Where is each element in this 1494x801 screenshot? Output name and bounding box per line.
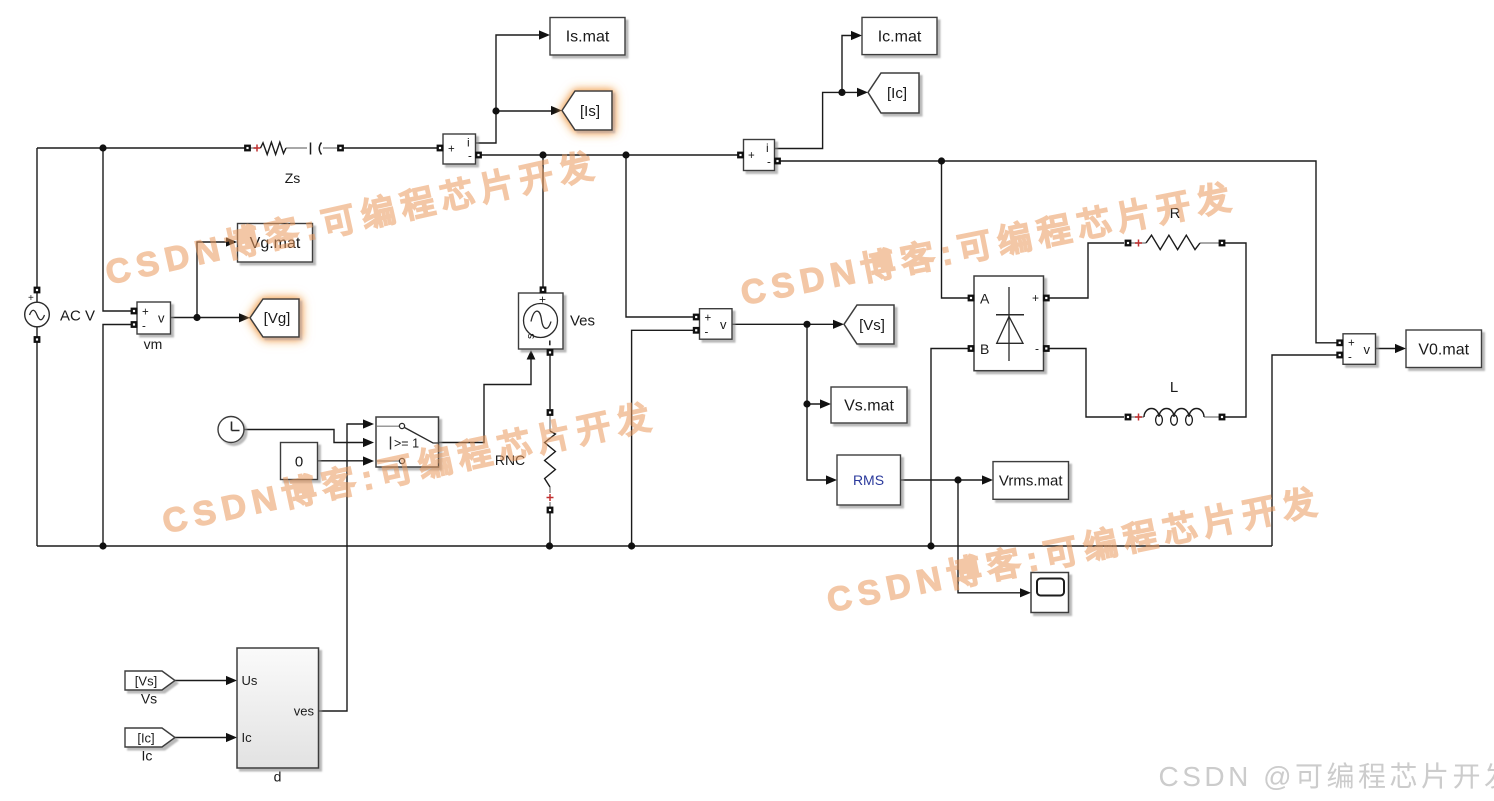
constant block 0 [281, 443, 318, 480]
arrow into scope [1020, 588, 1031, 597]
wire: branch down to RMS [807, 404, 826, 480]
series RLC branch Zs [244, 142, 344, 186]
node: Vs meter tap [622, 151, 629, 158]
svg-text:s: s [525, 333, 537, 339]
node: bus RNC tap [546, 542, 553, 549]
arrow into Vs goto [833, 320, 844, 329]
svg-text:-: - [468, 151, 472, 163]
wire: main AC line I1 to I2 [479, 154, 738, 156]
svg-text:Us: Us [242, 673, 258, 688]
AC voltage source AC V [25, 287, 95, 343]
wire: branch down to bridge A [942, 161, 970, 298]
svg-text:RMS: RMS [853, 472, 884, 488]
node: Ic tap [838, 89, 845, 96]
Goto tag [Vs] [844, 305, 894, 344]
arrow into switch in1 [363, 419, 374, 428]
wire: bridge plus to R [1049, 243, 1124, 298]
controlled voltage source Ves [519, 286, 596, 355]
svg-text:Is.mat: Is.mat [566, 29, 610, 46]
node: bus vm tap [99, 542, 106, 549]
node: Vg tap [193, 314, 200, 321]
svg-text:Ic: Ic [242, 730, 253, 745]
node: Vs.mat tap [803, 400, 810, 407]
node: bus bridge B tap [927, 542, 934, 549]
svg-text:+: + [28, 293, 34, 304]
svg-text:V0.mat: V0.mat [1418, 342, 1469, 359]
wire: Vs from tag to subsystem [175, 680, 226, 682]
svg-text:Ic.mat: Ic.mat [878, 29, 922, 46]
svg-text:+: + [1032, 291, 1039, 305]
arrow into Vg goto [239, 313, 250, 322]
svg-text:AC V: AC V [60, 308, 95, 325]
wire: main line right of I2 [777, 161, 1339, 343]
wire: branch down to Vs.mat [807, 324, 820, 404]
To File block Is.mat [550, 18, 625, 56]
ARROWHEADS [226, 30, 1406, 742]
svg-text:L: L [1170, 379, 1178, 396]
wire: vm output to Vg tags [171, 317, 241, 319]
svg-text:-: - [1035, 342, 1039, 356]
svg-text:[Ic]: [Ic] [137, 731, 154, 746]
voltage measurement vm [131, 302, 171, 352]
diode block [968, 276, 1050, 371]
wire: branch down to Vs meter plus [626, 155, 695, 317]
arrow into Is.mat [539, 30, 550, 39]
To File block Vrms.mat [993, 462, 1069, 500]
svg-text:+: + [748, 150, 755, 162]
To File block Vs.mat [831, 387, 907, 423]
arrow into Vs.mat [820, 399, 831, 408]
Goto tag [Is] [562, 91, 612, 130]
voltage measurement V0 meter [1336, 334, 1375, 365]
Goto tag [Vg] [250, 299, 299, 337]
svg-text:+: + [1348, 338, 1355, 350]
node: vm plus tap [99, 144, 106, 151]
svg-text:Zs: Zs [285, 170, 301, 186]
svg-text:d: d [274, 769, 282, 785]
svg-text:A: A [980, 291, 990, 307]
svg-text:Vs: Vs [141, 691, 157, 707]
wire: R to L right side [1225, 243, 1246, 417]
From tag [Ic] [125, 728, 175, 764]
wire: Ic from tag to subsystem [175, 737, 226, 739]
wire: bridge minus to L [1049, 349, 1124, 418]
svg-text:-: - [767, 157, 771, 169]
wire: Ves minus to RNC [549, 355, 551, 409]
resistor RNC [495, 409, 556, 513]
wire: I1 signal to Is tags [476, 35, 540, 143]
svg-text:Ves: Ves [570, 313, 595, 330]
svg-text:[Vg]: [Vg] [264, 310, 291, 327]
arrow into Ves s input [527, 350, 536, 360]
node: Ves tap [539, 151, 546, 158]
svg-text:CSDN @可编程芯片开发: CSDN @可编程芯片开发 [1158, 761, 1494, 792]
RMS block [837, 455, 901, 505]
svg-text:vm: vm [144, 336, 163, 352]
arrow into switch in3 [363, 456, 374, 465]
wire: Vs meter minus to bus [632, 330, 695, 546]
inductor L [1125, 379, 1226, 425]
svg-text:[Is]: [Is] [580, 103, 600, 120]
wire: subsystem ves up to switch [319, 424, 364, 711]
wire: Vs meter output [732, 323, 833, 325]
node: Vrms tap [954, 476, 961, 483]
scope block [1031, 573, 1069, 613]
wire: bus right up to V0 meter minus [1272, 355, 1339, 546]
arrow into subsystem Us [226, 676, 237, 685]
svg-text:v: v [1364, 342, 1371, 357]
svg-text:v: v [720, 317, 727, 332]
Goto tag [Ic] [868, 73, 919, 113]
wire: AC V minus vertical to bus [36, 327, 38, 547]
wire: V0 meter output [1376, 348, 1396, 350]
wire: branch down to Ves plus [542, 155, 544, 293]
arrow into Vrms.mat [982, 475, 993, 484]
wire: switch output to Ves s [439, 359, 532, 443]
To File block V0.mat [1406, 330, 1482, 368]
resistor R [1125, 205, 1226, 250]
wire: Zs to I1 plus [343, 147, 439, 149]
wire: Ic.mat branch [842, 36, 851, 93]
svg-text:[Vs]: [Vs] [135, 674, 157, 689]
svg-text:[Vs]: [Vs] [859, 317, 885, 334]
svg-text:-: - [1348, 352, 1352, 364]
wire: constant to switch [318, 460, 364, 462]
clock block [218, 417, 244, 443]
arrow into switch in2 [363, 438, 374, 447]
node: Vs goto tap [803, 321, 810, 328]
wire: clock to switch [245, 430, 364, 443]
svg-text:i: i [467, 136, 470, 150]
arrow into Is goto [551, 106, 562, 115]
wire: RNC to bus [549, 513, 551, 546]
svg-text:+: + [705, 313, 712, 325]
wire: branch down to scope [958, 480, 1020, 593]
subsystem d [237, 648, 319, 785]
svg-text:Vs.mat: Vs.mat [844, 398, 894, 415]
arrow into Vg.mat [226, 237, 237, 246]
wire: branch up to Vg.mat [197, 242, 226, 318]
arrow into Ic.mat [851, 31, 862, 40]
svg-text:0: 0 [295, 454, 303, 471]
svg-text:Ic: Ic [142, 748, 153, 764]
arrow into RMS [826, 475, 837, 484]
wire: branch to vm plus [103, 148, 133, 311]
node: bridge A tap [938, 157, 945, 164]
node: Is tap [492, 107, 499, 114]
wire: ground bus bottom [37, 545, 1272, 547]
To File block Ic.mat [862, 17, 937, 54]
svg-text:ves: ves [294, 704, 315, 719]
wire: bridge B to bus [931, 349, 969, 547]
svg-text:Vrms.mat: Vrms.mat [999, 473, 1063, 490]
From tag [Vs] [125, 671, 175, 707]
wire: I2 signal up to Ic tags [775, 92, 858, 148]
wire: AC V top to Zs [37, 147, 245, 149]
svg-text:v: v [158, 311, 165, 326]
arrow into V0.mat [1395, 344, 1406, 353]
svg-text:-: - [705, 327, 709, 339]
wire: AC V plus vertical [36, 148, 38, 303]
current measurement I2 [737, 140, 781, 171]
current measurement I1 [437, 134, 482, 164]
To File block Vg.mat [238, 224, 313, 263]
node: bus Vs meter tap [628, 542, 635, 549]
switch block [376, 417, 439, 467]
svg-text:i: i [766, 141, 769, 155]
svg-text:+: + [142, 307, 149, 319]
voltage measurement Vs meter [693, 309, 732, 340]
arrow into Ic goto [857, 88, 868, 97]
arrow into subsystem Ic [226, 733, 237, 742]
wire: Is goto branch [496, 110, 551, 112]
svg-text:[Ic]: [Ic] [887, 85, 907, 102]
svg-text:-: - [142, 321, 146, 333]
svg-text:+: + [448, 144, 455, 156]
wire: branch bus to vm minus [103, 325, 133, 547]
svg-text:B: B [980, 341, 989, 357]
wire: RMS output to Vrms.mat [901, 479, 983, 481]
